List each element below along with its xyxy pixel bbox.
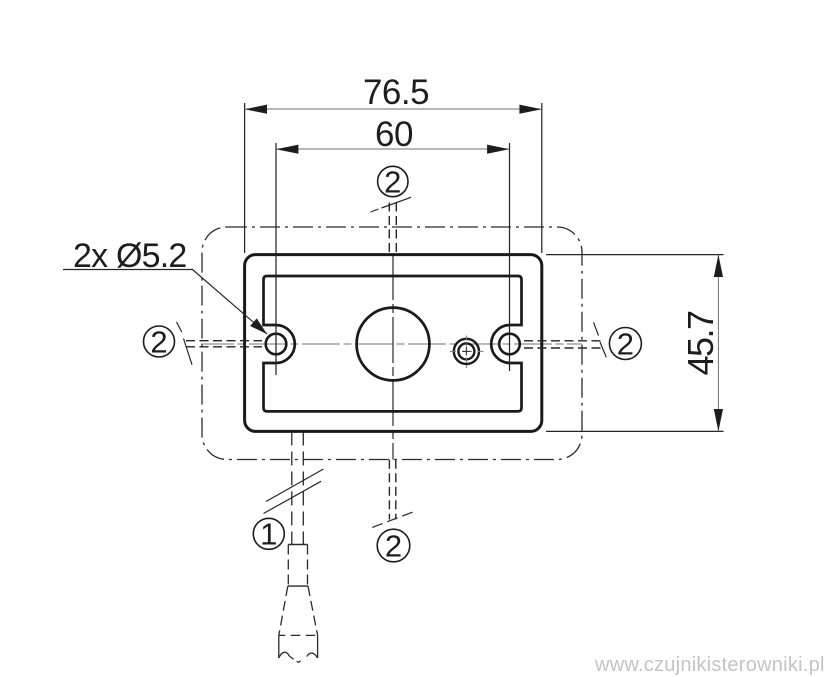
connector tip sides bbox=[278, 635, 280, 658]
svg-text:60: 60 bbox=[375, 115, 413, 154]
right mounting hole bbox=[499, 334, 520, 355]
big center hole bbox=[357, 308, 430, 381]
svg-text:1: 1 bbox=[260, 517, 277, 552]
dim 60 line bbox=[276, 148, 510, 150]
dim 60 extension line left (through part) bbox=[275, 143, 277, 375]
svg-text:2: 2 bbox=[385, 529, 402, 564]
small hole centerline horizontal bbox=[450, 350, 484, 352]
callout 2 bottom bbox=[377, 529, 410, 562]
dim 76.5 extension line left bbox=[244, 103, 246, 253]
left break slash bbox=[177, 322, 193, 365]
svg-text:2: 2 bbox=[384, 164, 401, 199]
right hidden side-hole dashes bbox=[524, 340, 601, 342]
callout 2 top bbox=[378, 166, 408, 196]
connector body top edge bbox=[288, 544, 307, 546]
svg-text:2: 2 bbox=[150, 324, 167, 359]
cable break slash 1 bbox=[266, 469, 324, 502]
connector shoulder edge bbox=[288, 585, 308, 587]
dim 76.5 arrow left bbox=[245, 105, 267, 114]
dim 76.5 arrow right bbox=[519, 105, 541, 114]
dim 45.7 line bbox=[717, 255, 719, 432]
bottom hidden cable hole dashes bbox=[388, 460, 390, 520]
connector torn end middle dip (dashed) bbox=[290, 656, 304, 662]
outer housing outline bbox=[245, 255, 542, 432]
bottom break slash bbox=[372, 512, 414, 528]
left mounting hole bbox=[266, 334, 287, 355]
small hole inner ring bbox=[458, 343, 474, 359]
callout 2 left bbox=[144, 326, 175, 357]
dim 60 arrow right bbox=[487, 145, 509, 154]
top hidden cable hole dashes bbox=[388, 203, 390, 255]
small hole centerline vertical bbox=[465, 336, 467, 369]
inner panel outline with keyhole notches bbox=[264, 276, 522, 411]
connector torn end left hump bbox=[279, 652, 290, 658]
callout 2 right bbox=[609, 328, 641, 360]
dim 60 arrow left bbox=[276, 145, 298, 154]
svg-text:76.5: 76.5 bbox=[363, 73, 429, 112]
left hidden side-hole dashes bbox=[186, 340, 262, 342]
small hole center cross bbox=[462, 347, 470, 355]
dim 45.7 extension line top bbox=[546, 254, 724, 256]
phantom outline (dash-dot rounded rect) bbox=[202, 227, 582, 460]
vertical centerline bbox=[392, 255, 394, 460]
callout 1 bbox=[253, 518, 284, 549]
dim 76.5 line bbox=[245, 108, 542, 110]
connector body sides (dashed) bbox=[287, 545, 289, 587]
leader arrowhead bbox=[250, 318, 267, 334]
dim 60 extension line right (through part) bbox=[509, 143, 511, 371]
horizontal centerline bbox=[202, 343, 582, 345]
svg-text:www.czujnikisterowniki.pl: www.czujnikisterowniki.pl bbox=[594, 654, 824, 676]
dim 45.7 arrow bottom bbox=[714, 409, 723, 431]
connector torn end right hump bbox=[307, 653, 318, 658]
cable break slash 2 bbox=[264, 481, 322, 513]
top break slash bbox=[371, 197, 412, 212]
leader line for 2x Ø5.2 bbox=[63, 270, 267, 335]
dim 45.7 extension line bottom bbox=[546, 430, 724, 432]
dim 45.7 arrow top bbox=[714, 255, 723, 277]
svg-text:45.7: 45.7 bbox=[680, 311, 721, 376]
right break slash bbox=[594, 322, 607, 357]
small hole outer ring bbox=[454, 339, 479, 364]
connector lower dashed edge bbox=[279, 634, 318, 636]
dim 76.5 extension line right bbox=[541, 103, 543, 253]
cable hidden lines bbox=[291, 432, 293, 545]
svg-text:2: 2 bbox=[617, 326, 634, 361]
connector flare sides (dashed) bbox=[279, 586, 288, 635]
